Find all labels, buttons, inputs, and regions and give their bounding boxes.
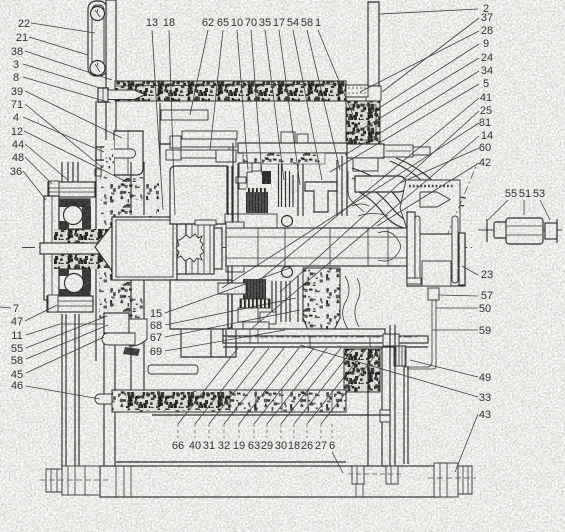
dark wedge left	[123, 347, 140, 356]
tick left	[486, 219, 488, 242]
lower clutch pack	[243, 279, 266, 299]
item 71 block	[101, 166, 109, 179]
coupling block	[112, 217, 177, 280]
wall notches	[132, 200, 156, 216]
stipple around bearings	[54, 229, 112, 244]
cone	[95, 225, 112, 271]
rails	[407, 212, 415, 282]
upper clutch pack	[246, 192, 268, 213]
support bracket under drum	[181, 330, 236, 357]
vertical bar left (rod)	[106, 0, 116, 150]
top wall stippled band	[115, 81, 346, 101]
stud 45	[102, 333, 135, 345]
right cap	[545, 223, 557, 239]
small bolt 41	[218, 283, 246, 294]
bar 62 under band	[161, 110, 208, 120]
lower drum walls	[228, 266, 303, 330]
bearing cap bolts top	[62, 162, 78, 183]
left leg J	[104, 313, 115, 488]
bolt 5 horizontal	[384, 145, 413, 157]
mini centerline	[478, 229, 562, 231]
bracket 37	[366, 86, 381, 104]
band divisions	[230, 390, 332, 412]
lower stripe row	[240, 299, 270, 308]
right bolt cluster	[434, 463, 458, 497]
line under band	[152, 414, 390, 416]
leg-bottom bolt cluster	[352, 466, 364, 484]
stud bolt 3 redraw	[98, 88, 108, 102]
bolts below	[62, 314, 79, 467]
pipe 59	[405, 300, 436, 369]
upper clutch pack teeth	[246, 188, 267, 193]
bell top rounded bar	[355, 176, 406, 192]
left bolt cluster	[62, 466, 100, 495]
cylinder	[407, 234, 465, 286]
centerline	[22, 247, 472, 249]
shaft cap wedge	[420, 192, 450, 207]
drum bottom plates	[223, 329, 385, 336]
nut left	[494, 222, 507, 238]
gear body blocks	[170, 166, 227, 224]
lever link body	[88, 1, 107, 76]
upper piston T	[305, 182, 337, 212]
drum top plate	[238, 143, 350, 153]
upper ball	[64, 206, 83, 225]
upper dark hub block	[262, 171, 271, 184]
cover 60/42	[400, 180, 460, 238]
flange stack mid-left	[104, 313, 129, 333]
spline detail	[378, 232, 401, 262]
leader lines right column	[222, 9, 479, 472]
shaft center	[226, 228, 413, 266]
small blocks above plate	[281, 132, 295, 144]
bolt at band right 28	[346, 85, 368, 97]
stud bolt 4	[96, 147, 107, 160]
leader lines mid-left	[165, 268, 300, 351]
drum walls upper	[298, 152, 347, 216]
bell outline curves	[352, 168, 434, 226]
stud 46	[95, 394, 129, 404]
bell lower S-curves	[343, 276, 349, 329]
upper plate strips	[279, 164, 294, 207]
right legs	[368, 325, 395, 496]
bracket 39 foot	[114, 131, 143, 175]
fitting 57	[428, 288, 439, 300]
stud bolt 4 over foot	[96, 147, 107, 160]
gasket dotted	[409, 185, 453, 188]
hub right of block	[177, 222, 186, 274]
upper retainer parts	[239, 163, 252, 189]
lower plate stack	[272, 281, 290, 322]
lower ball	[65, 274, 84, 293]
housing interior wall lines	[160, 103, 171, 166]
base band	[100, 466, 440, 497]
base top line	[116, 461, 346, 463]
dense block lower right	[344, 349, 380, 392]
lower stipple drum block	[303, 268, 340, 330]
stud bolt 3	[98, 88, 108, 102]
lower round nut	[282, 267, 293, 278]
gasket speckle strip	[243, 153, 325, 164]
leader lines left column	[0, 23, 127, 399]
right vertical bar 2	[368, 2, 379, 86]
lever pin top	[91, 7, 105, 21]
upper bearing block	[59, 199, 90, 229]
leader lines top row	[152, 30, 355, 215]
serrated coupling end	[176, 234, 204, 262]
hex body	[506, 218, 543, 244]
shaft	[40, 243, 104, 254]
leaders mini detail	[488, 200, 550, 220]
lower bearing block	[59, 269, 90, 297]
housing left big stipple region	[101, 177, 159, 225]
bottom stippled band	[112, 390, 346, 412]
housing wall left vertical	[95, 101, 97, 361]
upper-left gear stack	[182, 131, 237, 139]
fitting 49 hatch	[394, 346, 406, 366]
bearing top flange	[48, 182, 95, 197]
hub band above shaft	[232, 214, 277, 228]
lever pin bottom	[90, 61, 105, 76]
collar rings	[226, 222, 244, 228]
lower piston parts	[238, 308, 258, 322]
inclined axis dash	[446, 164, 477, 238]
small bar 63 area	[148, 365, 198, 374]
bearing cap blocks	[347, 144, 384, 158]
round nut on shaft	[282, 216, 293, 227]
dense block 9 (right pillar)	[346, 101, 380, 144]
bearing left cover	[44, 196, 59, 300]
bearing bottom flange	[47, 296, 93, 312]
